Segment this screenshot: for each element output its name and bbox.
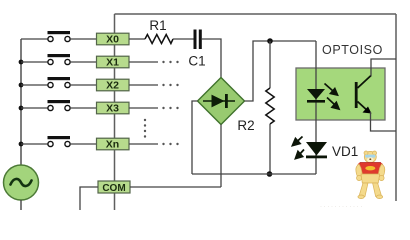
wire left AC rail	[20, 39, 22, 166]
node rail-Xn junction	[19, 142, 24, 147]
AC source G1	[4, 165, 39, 200]
node R2 top junction	[267, 38, 273, 44]
switch S0	[48, 31, 71, 42]
node X2 ellipsis dots	[162, 84, 178, 86]
svg-text:X2: X2	[106, 80, 119, 92]
wire X2 row stub right	[129, 84, 158, 86]
wire PLC right rail	[395, 14, 397, 201]
svg-text:X1: X1	[106, 57, 119, 69]
terminal X3	[97, 102, 130, 114]
switch S3	[48, 100, 71, 111]
wire LED branch vertical	[315, 41, 317, 174]
wire X0 to R1	[129, 38, 145, 40]
watermark mascot bear	[356, 151, 385, 199]
node rail-X2 junction	[19, 83, 24, 88]
wire X1 switch to terminal	[70, 61, 96, 63]
switch S2	[48, 77, 71, 88]
wire COM to bridge	[130, 186, 221, 188]
wire Xn switch to terminal	[70, 143, 96, 145]
svg-text:OPTOISO: OPTOISO	[322, 43, 383, 57]
wire COM left drop	[80, 187, 98, 210]
node Xn ellipsis dots	[162, 143, 178, 145]
opto phototransistor Q1	[355, 76, 372, 114]
svg-text:Xn: Xn	[106, 139, 119, 151]
terminal X2	[97, 79, 130, 91]
wire X3 row left	[21, 107, 48, 109]
wire R2 bottom lead	[269, 124, 271, 174]
VD1 emission arrows	[293, 137, 305, 159]
wire collector to right rail	[371, 59, 396, 76]
wire R2 top lead	[269, 41, 271, 88]
terminal X0	[97, 33, 130, 45]
wire X2 row left	[21, 84, 48, 86]
node rail-X3 junction	[19, 106, 24, 111]
resistor R1	[145, 35, 173, 44]
svg-text:VD1: VD1	[332, 144, 358, 159]
svg-text:· · · · · · · · · · · ·: · · · · · · · · · · · ·	[320, 204, 362, 210]
wire X0 switch to terminal	[70, 38, 96, 40]
wire emitter to right rail	[371, 112, 397, 131]
svg-text:R1: R1	[149, 18, 166, 33]
wire X2 switch to terminal	[70, 84, 96, 86]
capacitor C1	[194, 30, 202, 50]
node R2 bottom junction	[267, 171, 273, 177]
wire PLC left terminal bus	[114, 14, 116, 210]
svg-text:X3: X3	[106, 103, 119, 115]
wire bridge bottom to COM row	[220, 125, 222, 188]
node X1 ellipsis dots	[162, 61, 178, 63]
wire X3 switch to terminal	[70, 107, 96, 109]
wire bottom return net	[192, 173, 316, 175]
wire R1 to C1	[173, 38, 194, 40]
optocoupler package U1 body	[296, 68, 385, 120]
bridge rectifier VC	[198, 78, 245, 125]
wire Xn row stub right	[129, 143, 158, 145]
opto LED emission arrows	[325, 84, 340, 110]
wire bridge right vertex up to top net	[245, 41, 317, 101]
node rail-X1 junction	[19, 60, 24, 65]
terminal Xn	[97, 138, 130, 150]
wire Xn row left	[21, 143, 48, 145]
wire X1 row left	[21, 61, 48, 63]
switch Sn	[48, 136, 71, 147]
svg-text:C1: C1	[188, 54, 205, 69]
wire bridge left vertex to return net	[192, 101, 198, 174]
wire X0 row left	[21, 38, 48, 40]
terminal X1	[97, 56, 130, 68]
terminal COM	[98, 181, 130, 194]
wire X3 row stub right	[129, 107, 158, 109]
node X3 ellipsis dots	[162, 107, 178, 109]
svg-text:R2: R2	[237, 118, 254, 133]
resistor R2	[266, 88, 274, 124]
svg-text:X0: X0	[106, 34, 119, 46]
LED VD1	[306, 142, 327, 158]
wire X1 row stub right	[129, 61, 158, 63]
node vertical ellipsis between X3 and Xn	[144, 119, 146, 138]
wire AC source bottom lead	[20, 200, 22, 210]
wire PLC top rail	[115, 13, 397, 15]
switch S1	[48, 54, 71, 65]
svg-text:COM: COM	[102, 183, 125, 194]
wire C1 to bridge top	[202, 39, 221, 78]
opto LED D1	[307, 89, 325, 103]
